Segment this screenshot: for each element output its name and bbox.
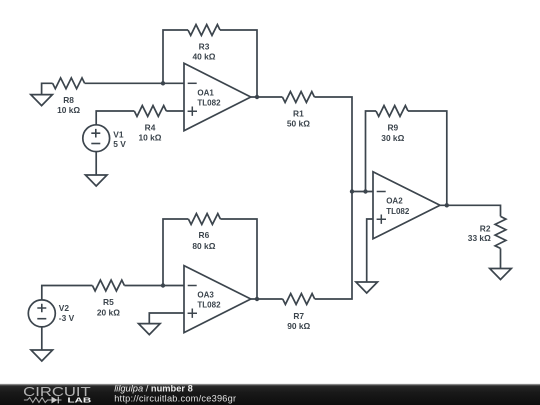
svg-text:20 kΩ: 20 kΩ: [97, 307, 120, 317]
svg-text:OA3: OA3: [197, 290, 214, 299]
svg-text:R5: R5: [103, 297, 114, 307]
svg-text:R4: R4: [145, 123, 156, 133]
svg-text:R6: R6: [199, 230, 210, 240]
svg-text:V2: V2: [59, 303, 70, 313]
svg-text:R7: R7: [293, 311, 304, 321]
svg-text:40 kΩ: 40 kΩ: [192, 52, 215, 62]
svg-text:80 kΩ: 80 kΩ: [192, 241, 215, 251]
svg-text:10 kΩ: 10 kΩ: [57, 105, 80, 115]
svg-text:lilgulpa / number 8: lilgulpa / number 8: [114, 384, 193, 394]
svg-text:R2: R2: [480, 224, 491, 234]
svg-text:10 kΩ: 10 kΩ: [138, 133, 161, 143]
svg-text:50 kΩ: 50 kΩ: [287, 119, 310, 129]
svg-text:http://circuitlab.com/ce396gr: http://circuitlab.com/ce396gr: [114, 393, 236, 403]
svg-text:90 kΩ: 90 kΩ: [287, 321, 310, 331]
svg-text:OA2: OA2: [386, 197, 403, 206]
svg-text:TL082: TL082: [197, 301, 221, 310]
svg-text:OA1: OA1: [197, 88, 214, 97]
svg-text:LAB: LAB: [67, 397, 91, 404]
svg-text:TL082: TL082: [386, 207, 410, 216]
svg-text:R3: R3: [199, 42, 210, 52]
svg-text:V1: V1: [113, 129, 124, 139]
svg-text:R9: R9: [387, 122, 398, 132]
svg-text:30 kΩ: 30 kΩ: [381, 133, 404, 143]
svg-text:33 kΩ: 33 kΩ: [468, 233, 491, 243]
svg-text:-3 V: -3 V: [59, 313, 75, 323]
svg-text:TL082: TL082: [197, 99, 221, 108]
svg-text:5 V: 5 V: [113, 139, 126, 149]
svg-text:R8: R8: [63, 95, 74, 105]
svg-text:R1: R1: [293, 109, 304, 119]
